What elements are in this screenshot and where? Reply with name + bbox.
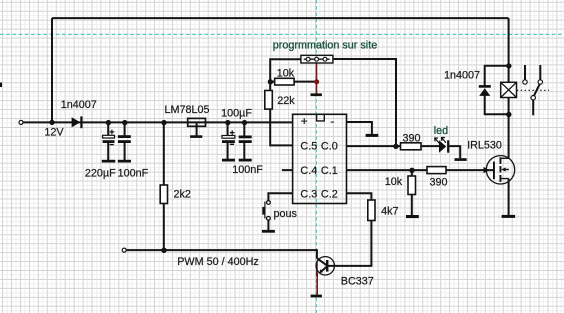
svg-text:IRL530: IRL530 [467, 140, 502, 152]
svg-text:390: 390 [429, 176, 447, 188]
svg-text:C.1: C.1 [321, 165, 338, 177]
svg-text:2k2: 2k2 [173, 188, 190, 200]
svg-text:-: - [330, 114, 334, 128]
svg-text:4k7: 4k7 [381, 206, 398, 218]
svg-text:220µF: 220µF [85, 167, 116, 179]
svg-text:100nF: 100nF [118, 167, 149, 179]
svg-text:C.4: C.4 [300, 165, 317, 177]
svg-text:1n4007: 1n4007 [61, 99, 97, 111]
svg-text:22k: 22k [277, 95, 295, 107]
svg-text:led: led [434, 125, 448, 137]
svg-text:BC337: BC337 [341, 275, 374, 287]
svg-text:C.3: C.3 [300, 188, 317, 200]
svg-text:100µF: 100µF [221, 108, 252, 120]
svg-text:390: 390 [402, 132, 420, 144]
svg-text:C.0: C.0 [321, 140, 338, 152]
svg-text:10k: 10k [385, 176, 403, 188]
svg-text:10k: 10k [277, 68, 295, 80]
svg-text:LM78L05: LM78L05 [164, 104, 209, 116]
svg-text:C.2: C.2 [321, 188, 338, 200]
svg-text:C.5: C.5 [300, 140, 317, 152]
svg-text:pous: pous [273, 208, 297, 220]
svg-text:12V: 12V [44, 127, 64, 139]
svg-text:+: + [301, 114, 308, 128]
svg-text:PWM 50 / 400Hz: PWM 50 / 400Hz [177, 256, 259, 268]
svg-text:progrmmation sur site: progrmmation sur site [273, 39, 377, 51]
svg-text:1n4007: 1n4007 [444, 69, 480, 81]
svg-text:100nF: 100nF [232, 164, 263, 176]
